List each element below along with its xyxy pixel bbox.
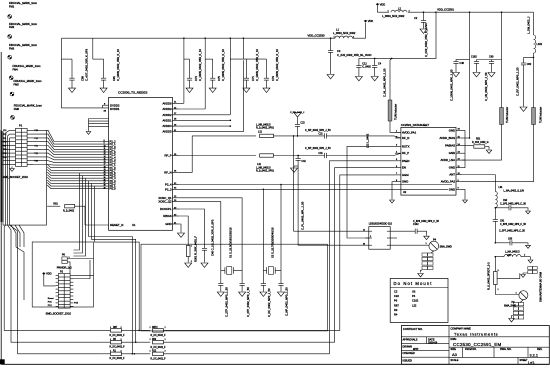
ground [473, 73, 480, 77]
sheet border bottom [1, 363, 549, 365]
svg-text:2: 2 [165, 351, 166, 353]
svg-text:2: 2 [121, 339, 122, 341]
pin P1-8 [27, 141, 33, 143]
pin ANT [456, 174, 462, 176]
svg-text:L22: L22 [412, 303, 417, 307]
balun U3 LDB182G4520C-110 [369, 227, 390, 250]
pin GND [172, 223, 179, 225]
pin P1-1 [10, 129, 16, 131]
pin RF_P [172, 155, 179, 157]
svg-text:P12: P12 [3, 134, 6, 136]
svg-text:C182: C182 [471, 56, 477, 59]
ground [355, 77, 362, 81]
pin XOSC_Q2 [172, 201, 179, 203]
pin P1-6 [27, 137, 33, 139]
ground [526, 211, 531, 214]
pin P1_4 [103, 156, 109, 158]
wire P1 to U1 [33, 134, 103, 144]
wire P2 right stubs [73, 274, 93, 276]
pin AVDD_PA1 [395, 131, 401, 133]
wire U1 GPIO down-bundle to P2 [73, 176, 82, 253]
svg-text:P0_0: P0_0 [110, 187, 117, 191]
wire crystal DNM box [141, 244, 327, 331]
svg-text:P11: P11 [3, 138, 6, 140]
svg-text:LDB182G4520C-110: LDB182G4520C-110 [369, 223, 393, 226]
pin P1-17 [10, 160, 16, 162]
svg-text:C2: C2 [394, 290, 398, 294]
svg-text:FM3: FM3 [9, 47, 15, 51]
capacitor C48 [456, 59, 470, 61]
svg-text:2: 2 [165, 327, 166, 329]
pin P1_3 [103, 159, 109, 161]
wire P6 pin2 [67, 262, 70, 274]
pin P2-17 [56, 302, 59, 304]
pin P2-16 [70, 298, 73, 300]
svg-text:VDD: VDD [368, 19, 374, 23]
svg-text:P10: P10 [3, 142, 6, 144]
pin P2_3 [172, 188, 179, 190]
svg-text:AVDD_LNA: AVDD_LNA [440, 158, 455, 162]
svg-text:C_100N_0402_X5R_K_10: C_100N_0402_X5R_K_10 [198, 49, 202, 81]
svg-text:AVDD_BIAS: AVDD_BIAS [440, 136, 456, 140]
svg-text:C_3P7_0402_NP0_C_50: C_3P7_0402_NP0_C_50 [499, 231, 526, 233]
svg-text:DWG. NO.: DWG. NO. [500, 348, 512, 351]
pin P0_2 [103, 182, 109, 184]
svg-text:RF_N: RF_N [402, 136, 409, 140]
capacitor C75 [205, 58, 213, 60]
wire U1 GPIO row [47, 167, 103, 171]
wire U2 right GND bus [462, 129, 465, 131]
svg-text:REV.: REV. [537, 348, 543, 351]
svg-text:C21: C21 [319, 133, 324, 135]
svg-text:1: 1 [498, 289, 499, 291]
svg-text:C_NP_0402_NP0_J_50: C_NP_0402_NP0_J_50 [305, 147, 331, 150]
pin P2-13 [56, 295, 59, 297]
svg-text:P6: P6 [394, 299, 398, 303]
pin P0_4 [103, 177, 109, 179]
wire U1 GPIO row [47, 169, 103, 173]
pin P1-5 [10, 137, 16, 139]
svg-text:C_100N_0402_X5R_K_10: C_100N_0402_X5R_K_10 [221, 49, 225, 81]
inductor L92 [495, 256, 497, 258]
wire P1 to U1 [33, 164, 103, 167]
wire U2 GND8 to ground [392, 182, 395, 200]
node AVDD6 dropper [183, 37, 185, 39]
svg-text:C82: C82 [527, 63, 532, 66]
svg-text:TLIN inductor: TLIN inductor [505, 107, 509, 123]
capacitor C40 DCOUPL [179, 209, 205, 248]
wire net P1_4 long [10, 225, 101, 354]
inductor L21 [179, 136, 256, 172]
svg-text:EN: EN [402, 166, 406, 170]
svg-text:GND: GND [449, 187, 455, 191]
svg-text:C3: C3 [337, 49, 341, 53]
pin P1-13 [10, 152, 16, 154]
wire net P1_6 long [4, 225, 100, 330]
pin P1-9 [10, 145, 16, 147]
svg-text:APPROVALS: APPROVALS [403, 339, 418, 342]
svg-text:P13: P13 [3, 130, 6, 132]
svg-text:3.2.1: 3.2.1 [530, 353, 538, 357]
wire rail drop to C12/C4 [435, 11, 437, 13]
wire TL1 feed [391, 58, 393, 60]
capacitor C74 [184, 58, 190, 60]
wire U1 GPIO row [47, 185, 103, 189]
pin P1_5 [103, 154, 109, 156]
ground [420, 29, 427, 33]
svg-text:C91: C91 [500, 221, 505, 223]
node AVDD2 dropper [230, 37, 232, 39]
svg-text:3: 3 [498, 270, 499, 272]
svg-text:U1: U1 [132, 223, 136, 227]
ground [86, 132, 91, 135]
capacitor C91 [103, 59, 105, 78]
pin P2-5 [56, 281, 59, 283]
pin AVDD_PA2 [456, 181, 462, 183]
svg-text:1: 1 [110, 327, 111, 329]
pin P2-15 [56, 298, 59, 300]
pin P2-1 [56, 274, 59, 276]
wire GND pin stub [179, 224, 181, 233]
svg-text:Reset: Reset [48, 297, 54, 300]
via stack P4 [431, 251, 434, 253]
wire U1 GPIO control net [89, 181, 133, 354]
svg-text:R_XX_0402_F: R_XX_0402_F [151, 358, 167, 360]
pin XOSC_Q1 [172, 197, 179, 199]
svg-text:R872: R872 [152, 327, 158, 329]
svg-text:TLIN inductor: TLIN inductor [393, 104, 397, 120]
svg-text:C_100N_0402_X5R_K_10: C_100N_0402_X5R_K_10 [255, 49, 259, 81]
svg-text:R4: R4 [394, 313, 398, 317]
title block frame [401, 326, 549, 365]
wire XOSC_Q1 [179, 198, 242, 271]
pin AVDD2 [172, 114, 179, 116]
svg-text:C_100N_0402_X5R_K_10: C_100N_0402_X5R_K_10 [116, 49, 120, 81]
pin P0_1 [103, 185, 109, 187]
pin P1-18 [27, 160, 33, 162]
pin P1_0 [103, 167, 109, 169]
svg-text:C71: C71 [251, 76, 255, 81]
power VDD [364, 20, 366, 22]
svg-text:R_XX_0402_F: R_XX_0402_F [151, 335, 167, 337]
svg-text:U3: U3 [412, 290, 416, 294]
svg-text:CC2530_TX_REDES: CC2530_TX_REDES [118, 91, 147, 95]
ground [424, 236, 430, 239]
svg-text:C74: C74 [194, 76, 198, 81]
inductor L102 [534, 35, 536, 53]
wire U1 GPIO row [47, 180, 103, 184]
pin GND [456, 167, 462, 169]
svg-text:ISSUED: ISSUED [403, 360, 413, 363]
ground [453, 73, 460, 77]
svg-text:C_1P5_0402_NP0_C_50: C_1P5_0402_NP0_C_50 [500, 204, 527, 206]
sheet border left [0, 52, 2, 364]
svg-text:FIDUCIAL_MARK_1mm: FIDUCIAL_MARK_1mm [9, 22, 37, 26]
svg-text:X2 X_32.768/20/50/40/16: X2 X_32.768/20/50/40/16 [270, 227, 274, 258]
capacitor C90 [491, 60, 493, 62]
svg-text:P05: P05 [3, 153, 6, 155]
pin AVDD4 [172, 125, 179, 127]
capacitor C22 [297, 126, 299, 135]
do-not-mount box [390, 279, 448, 323]
capacitor C92 [495, 207, 497, 209]
ground [263, 88, 270, 92]
ground [526, 245, 531, 248]
pin P1-14 [27, 152, 33, 154]
pin P2-6 [70, 281, 73, 283]
wire NC pins to ground [89, 118, 109, 120]
ground [294, 113, 301, 117]
pin RBIAS [172, 215, 179, 217]
svg-text:AVDD1: AVDD1 [162, 118, 172, 122]
svg-text:C92: C92 [503, 200, 508, 202]
pin P0_7 [103, 169, 109, 171]
svg-text:VDD: VDD [380, 2, 386, 6]
pin RF_N [172, 171, 179, 173]
svg-text:VDD: VDD [46, 272, 52, 276]
svg-text:L22 L_0402: L22 L_0402 [366, 133, 370, 148]
svg-text:1: 1 [150, 351, 151, 353]
svg-text:FIDUCIAL_MARK_1mm: FIDUCIAL_MARK_1mm [9, 43, 37, 47]
ground [528, 256, 531, 258]
svg-text:R_XX_0402_F: R_XX_0402_F [110, 335, 126, 337]
svg-text:SMA_SWD: SMA_SWD [504, 305, 516, 308]
resistor R91 [494, 257, 496, 272]
svg-text:C_1N_0402_NP0_J_50: C_1N_0402_NP0_J_50 [484, 72, 488, 101]
ground [178, 233, 185, 237]
capacitor C102 [390, 230, 415, 232]
pin P2-4 [70, 278, 73, 280]
ground [509, 319, 515, 322]
svg-text:L_0603_NX2_0402: L_0603_NX2_0402 [333, 31, 356, 35]
capacitor C42 [296, 158, 301, 160]
svg-text:1: 1 [191, 246, 192, 248]
wire U1 GPIO control net [92, 183, 136, 342]
wire AVDD5 [179, 60, 243, 131]
svg-text:AVDD_PA2: AVDD_PA2 [441, 180, 456, 184]
power VDD [376, 3, 378, 5]
pin DCOUPL [172, 208, 179, 210]
node ANT junction [462, 174, 495, 176]
wire balun in1 [294, 136, 369, 231]
wire balun in3 [297, 156, 299, 159]
wire L102 down [533, 53, 535, 108]
wire U1 GPIO control net [95, 186, 140, 330]
svg-text:RBIAS: RBIAS [163, 214, 172, 218]
node C3 junction [330, 37, 332, 39]
svg-text:SIZE: SIZE [451, 348, 457, 351]
svg-text:C_100N_0402_X5R_K_10: C_100N_0402_X5R_K_10 [275, 49, 279, 81]
svg-text:AVDD2: AVDD2 [162, 113, 172, 117]
via stack P3 [520, 300, 523, 303]
pin GND [456, 188, 462, 190]
wire L1 to VDD [353, 23, 366, 39]
ground [520, 107, 527, 111]
svg-text:C_NL_0402_NP0_J_50: C_NL_0402_NP0_J_50 [383, 68, 387, 97]
svg-text:CONTRACT NO.: CONTRACT NO. [403, 327, 423, 331]
wire R81 to RESET_N [75, 206, 85, 225]
capacitor C182 [477, 59, 502, 61]
svg-text:CC2530_CC2591_EM: CC2530_CC2591_EM [453, 342, 502, 347]
svg-text:SHEET: SHEET [520, 359, 529, 362]
svg-text:VDD_CC2591: VDD_CC2591 [437, 7, 455, 11]
svg-text:AVDD4: AVDD4 [162, 124, 172, 128]
svg-text:2: 2 [370, 236, 371, 238]
wire P1 to U1 [33, 142, 103, 150]
svg-text:XOSC_Q2: XOSC_Q2 [158, 200, 172, 204]
wire P1 to U1 [33, 161, 103, 163]
svg-text:GND: GND [449, 166, 455, 170]
svg-text:C_2U2_0402_X5R_NL_4V3C: C_2U2_0402_X5R_NL_4V3C [337, 53, 372, 57]
svg-text:L21: L21 [258, 131, 263, 134]
svg-text:GND: GND [402, 180, 408, 184]
svg-text:R_0_0402_3P01: R_0_0402_3P01 [256, 127, 275, 130]
ground [291, 168, 298, 172]
title block left rows [401, 343, 449, 345]
pin P0_6 [103, 172, 109, 174]
wire P1 exit diagonals [11, 225, 16, 247]
svg-text:RF_P: RF_P [164, 154, 171, 158]
power VDD P2 [43, 272, 45, 274]
capacitor C191 [220, 271, 222, 284]
svg-text:AVDD5: AVDD5 [162, 130, 172, 134]
wire cap branch [230, 58, 266, 60]
svg-text:P06: P06 [3, 149, 6, 151]
svg-text:L_NA_0402_0_LIN: L_NA_0402_0_LIN [504, 190, 525, 193]
pin P1-19 [10, 164, 16, 166]
svg-text:R_0_0402_0P0DT_2-3: R_0_0402_0P0DT_2-3 [486, 262, 490, 290]
wire P6 pin1 [67, 258, 93, 260]
svg-text:P04: P04 [3, 157, 6, 159]
svg-text:CC2591_DATASHEET: CC2591_DATASHEET [401, 123, 429, 127]
svg-text:RF_N: RF_N [164, 170, 171, 174]
wire balun out2 [390, 237, 397, 239]
pin P1_7 [103, 148, 109, 150]
inductor L41 [179, 155, 256, 157]
wire P1 to U1 [33, 146, 103, 152]
capacitor C12 [358, 58, 360, 65]
sheet corner mark [0, 360, 5, 365]
wire AVDD4 [179, 125, 230, 127]
svg-text:R_0_0402_3P01: R_0_0402_3P01 [256, 170, 275, 173]
pin GND [395, 181, 401, 183]
resistor R12 [153, 352, 164, 355]
wire TL1 to AVDD_PA1 [390, 121, 401, 132]
svg-text:Do Not Mount: Do Not Mount [394, 281, 433, 286]
svg-text:SMD_SOCKET_2X10: SMD_SOCKET_2X10 [3, 175, 29, 179]
svg-text:3: 3 [364, 243, 365, 245]
ground [69, 88, 76, 92]
svg-text:C48: C48 [460, 62, 465, 65]
pin AVDD5 [172, 131, 179, 133]
crystal X2 [263, 270, 266, 272]
svg-text:1: 1 [110, 351, 111, 353]
pin AVDD_LNA [456, 159, 462, 161]
wire AVDD_LNA up [462, 159, 465, 161]
ground [201, 263, 208, 267]
wire VDD_CC2530 bus [62, 37, 336, 39]
svg-text:1: 1 [110, 339, 111, 341]
svg-text:FM6: FM6 [14, 107, 20, 111]
pin RF_N [395, 137, 401, 139]
wire L21 to C21 [274, 135, 325, 137]
pin EN [395, 167, 401, 169]
transmission line TL1 [388, 100, 392, 121]
wire C21 to RF_N [326, 136, 401, 138]
ground [217, 292, 224, 296]
svg-text:C_NP_0402_NP0_J_50: C_NP_0402_NP0_J_50 [305, 129, 331, 132]
ground [463, 200, 468, 203]
svg-text:HGM: HGM [402, 173, 409, 177]
svg-text:2009-09: 2009-09 [428, 341, 438, 344]
wire P2_4 net [179, 184, 452, 186]
wire P2_3 net [179, 188, 448, 190]
svg-text:1: 1 [150, 339, 151, 341]
capacitor C93 [495, 242, 497, 244]
capacitor C99 [62, 58, 73, 60]
svg-text:FIDUCIAL_MARK_1mm: FIDUCIAL_MARK_1mm [14, 79, 42, 83]
svg-text:R52: R52 [152, 339, 157, 341]
svg-text:L102: L102 [537, 43, 543, 46]
wire AVDD_BIAS up [462, 137, 470, 139]
wire P1 to U1 [33, 149, 103, 154]
pin P2-14 [70, 295, 73, 297]
wire U1 GPIO row [47, 164, 103, 168]
svg-text:C_4U7_0402_X5R_K_6P3: C_4U7_0402_X5R_K_6P3 [84, 48, 88, 81]
pin P1_6 [103, 151, 109, 153]
svg-text:R3: R3 [394, 308, 398, 312]
pin AVDD3 [172, 108, 179, 110]
pin P2-20 [70, 305, 73, 307]
svg-text:DCOUPL: DCOUPL [160, 207, 172, 211]
svg-text:P07: P07 [3, 145, 6, 147]
capacitor C193 [262, 271, 264, 284]
ground [239, 292, 246, 296]
pin AVDD1 [172, 119, 179, 121]
wire P1 to U1 [33, 157, 103, 160]
wire TL3 to ANT pin [462, 125, 534, 182]
svg-text:PABIAS: PABIAS [445, 144, 455, 148]
svg-text:SCALE: SCALE [451, 359, 459, 362]
svg-text:ANT: ANT [449, 173, 455, 177]
pin P1-12 [27, 148, 33, 150]
resistor R87 [100, 329, 110, 331]
wire rail drop TL2 [501, 11, 503, 13]
wire VDD to P2 [44, 275, 56, 286]
pin P2-12 [70, 292, 73, 294]
pin GND [456, 129, 462, 131]
wire net P1_5 long [8, 225, 101, 342]
resistor R872 [153, 329, 164, 332]
svg-text:R301 R_56K_0402_F: R301 R_56K_0402_F [194, 236, 198, 262]
wire P1 outline box [3, 130, 46, 225]
wire R52 to EN [164, 168, 395, 343]
wire U1 GPIO row [47, 175, 103, 179]
svg-text:1: 1 [150, 327, 151, 329]
svg-text:RESET_N: RESET_N [110, 223, 123, 227]
wire R91 tap [497, 273, 520, 278]
pin RF_P [395, 152, 401, 154]
pin P2-2 [70, 274, 73, 276]
pin P1-11 [10, 148, 16, 150]
svg-text:L_SM_0402_J: L_SM_0402_J [527, 16, 531, 34]
svg-text:C93: C93 [508, 238, 513, 240]
wire P1 left bus [6, 130, 10, 225]
ground [521, 275, 526, 278]
capacitor C3 [330, 38, 332, 50]
ground [209, 88, 216, 92]
ground [260, 292, 267, 296]
